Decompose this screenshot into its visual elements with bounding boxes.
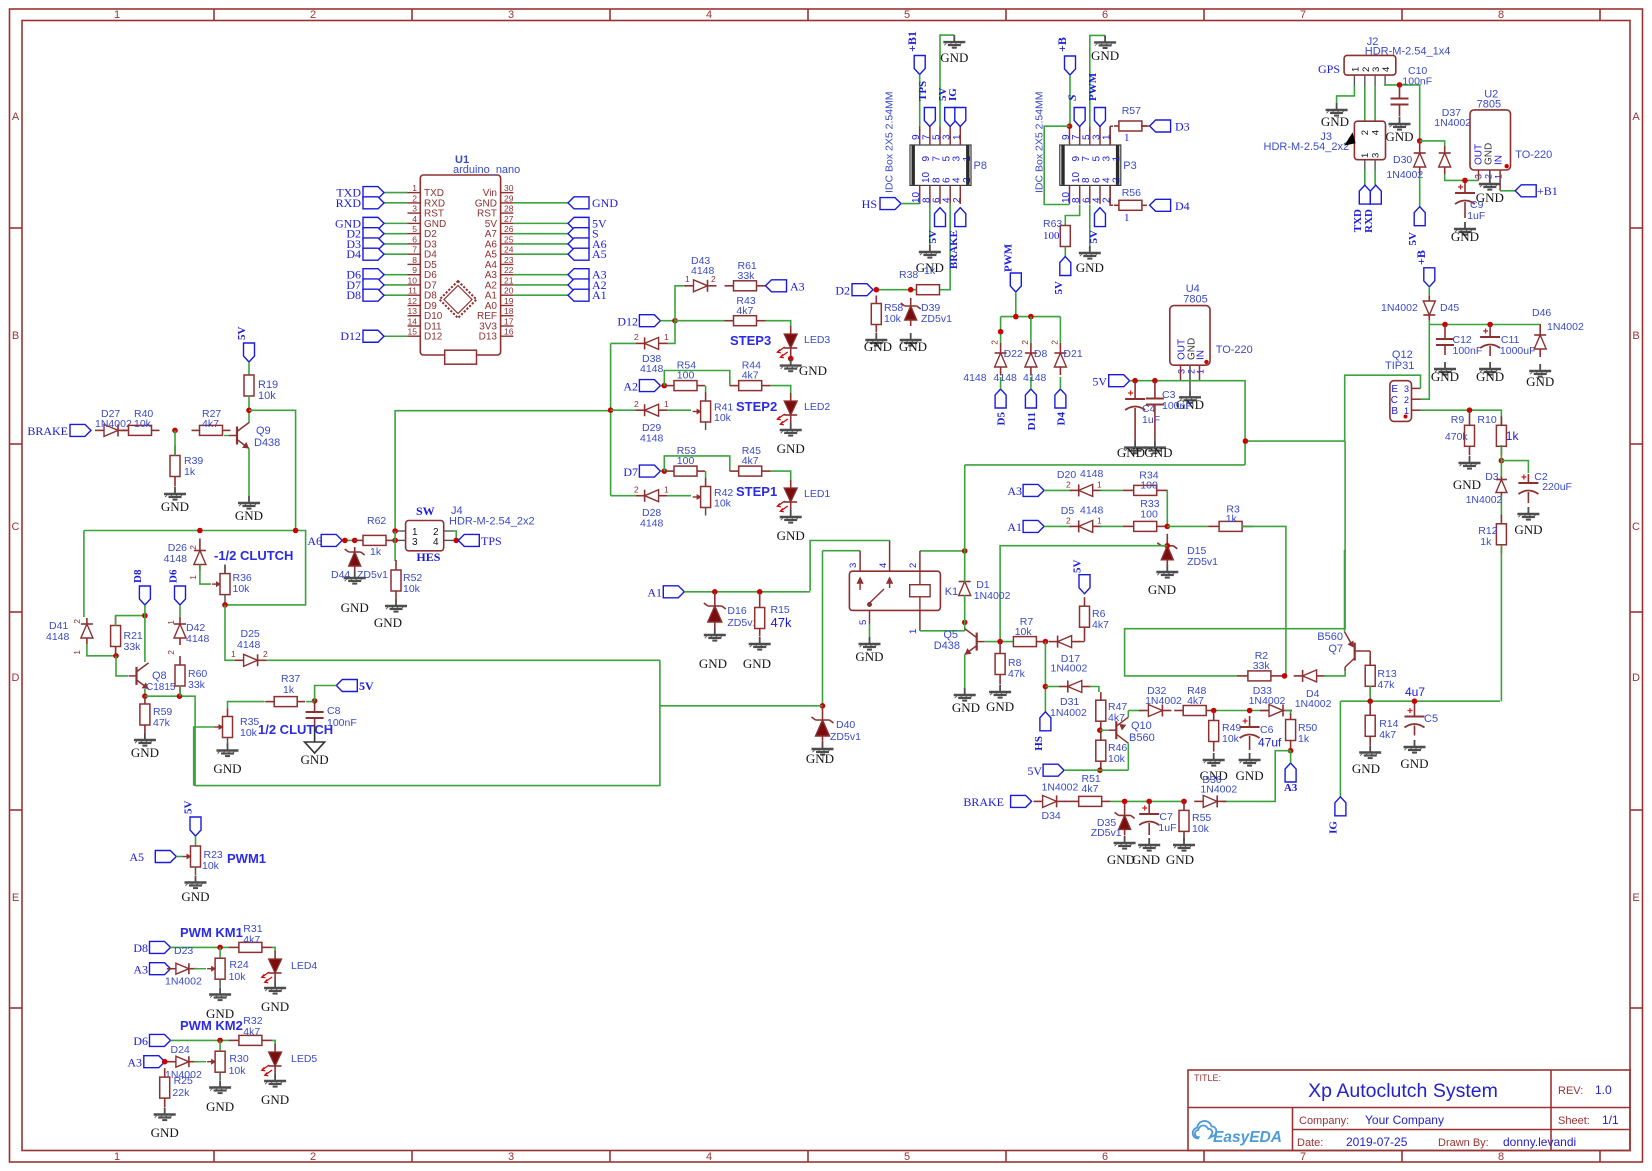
junction bbox=[1288, 748, 1294, 754]
junction bbox=[998, 329, 1004, 335]
junction bbox=[113, 653, 119, 659]
svg-text:Your Company: Your Company bbox=[1365, 1113, 1444, 1127]
svg-text:3: 3 bbox=[1177, 369, 1187, 374]
svg-text:D8: D8 bbox=[132, 569, 144, 583]
svg-text:B560: B560 bbox=[1129, 732, 1155, 744]
wire D8 to D11 bbox=[1030, 377, 1032, 389]
svg-text:4k7: 4k7 bbox=[1379, 729, 1396, 741]
svg-text:2: 2 bbox=[1112, 177, 1123, 183]
junction bbox=[312, 698, 318, 704]
svg-text:A: A bbox=[12, 111, 20, 123]
svg-text:PWM: PWM bbox=[1087, 72, 1099, 101]
svg-text:A1: A1 bbox=[647, 586, 662, 600]
junction bbox=[293, 528, 299, 534]
svg-text:4k7: 4k7 bbox=[1092, 619, 1109, 631]
svg-text:4148: 4148 bbox=[963, 372, 987, 384]
capacitor C9 1uF bbox=[1455, 183, 1475, 218]
svg-text:A3: A3 bbox=[127, 1056, 142, 1070]
junction bbox=[162, 1059, 168, 1065]
resistor R51 bbox=[1065, 796, 1111, 806]
svg-text:ZD5v1: ZD5v1 bbox=[830, 731, 861, 743]
svg-text:19: 19 bbox=[504, 296, 514, 306]
svg-text:7: 7 bbox=[412, 245, 417, 255]
wire bus to IG flag bbox=[1339, 701, 1341, 797]
svg-text:8: 8 bbox=[1498, 9, 1504, 21]
svg-text:D16: D16 bbox=[727, 605, 746, 617]
svg-text:TIP31: TIP31 bbox=[1385, 360, 1414, 372]
svg-text:1: 1 bbox=[412, 183, 417, 193]
net flag bbox=[1285, 763, 1296, 782]
svg-text:REV:: REV: bbox=[1558, 1085, 1583, 1097]
wire +B down bbox=[1069, 75, 1071, 127]
port flag D12 bbox=[363, 330, 384, 342]
zener diode D39 ZD5v1 bbox=[901, 298, 921, 326]
wire D2 to R38 bbox=[873, 289, 917, 291]
svg-text:A3: A3 bbox=[1284, 782, 1298, 794]
svg-text:EasyEDA: EasyEDA bbox=[1213, 1129, 1282, 1146]
svg-text:2: 2 bbox=[908, 563, 919, 568]
svg-text:A2: A2 bbox=[623, 380, 638, 394]
port flag D8 bbox=[363, 289, 384, 301]
resistor R46 bbox=[1096, 731, 1106, 770]
EasyEDA logo bbox=[1193, 1121, 1282, 1146]
svg-text:+B: +B bbox=[1055, 37, 1069, 52]
wire D6 flag to D42 bbox=[179, 605, 181, 617]
svg-text:C: C bbox=[1632, 521, 1640, 533]
svg-text:2019-07-25: 2019-07-25 bbox=[1346, 1135, 1408, 1149]
svg-text:3: 3 bbox=[508, 1151, 514, 1163]
wire R60 to emitter bus bbox=[179, 686, 181, 696]
port flag S bbox=[568, 228, 589, 240]
svg-text:D: D bbox=[12, 672, 20, 684]
svg-text:P8: P8 bbox=[974, 160, 987, 172]
svg-text:3: 3 bbox=[412, 537, 418, 548]
junction bbox=[453, 538, 459, 544]
net flag bbox=[880, 198, 901, 210]
svg-text:D4: D4 bbox=[1055, 412, 1067, 426]
svg-text:3: 3 bbox=[1404, 384, 1409, 394]
ground below C9 bbox=[1454, 222, 1476, 235]
U1 left pins bbox=[408, 193, 421, 337]
net flag bbox=[639, 465, 660, 477]
svg-text:1N4002: 1N4002 bbox=[1050, 707, 1087, 719]
wire D29 to R41 wiper bbox=[667, 409, 691, 411]
wire P3 pin5 to GND top bbox=[1090, 35, 1105, 126]
port flag TXD bbox=[363, 187, 384, 199]
wire R44 to LED2 bbox=[771, 386, 791, 394]
svg-text:33k: 33k bbox=[1253, 660, 1271, 672]
svg-text:D3: D3 bbox=[1175, 120, 1190, 134]
net flag bbox=[458, 534, 479, 546]
IC U1 arduino_nano bbox=[420, 175, 500, 355]
svg-text:100: 100 bbox=[1043, 230, 1060, 242]
svg-text:1N4002: 1N4002 bbox=[1249, 695, 1286, 707]
svg-text:33k: 33k bbox=[124, 641, 142, 653]
wire J2 pin1 to ground bbox=[1337, 86, 1355, 103]
svg-text:10k: 10k bbox=[1222, 733, 1240, 745]
resistor R37 bbox=[265, 697, 305, 707]
ground below P3 pin6 bbox=[1079, 246, 1101, 259]
svg-text:5V: 5V bbox=[1092, 375, 1107, 389]
svg-text:4k7: 4k7 bbox=[202, 418, 219, 430]
svg-text:1: 1 bbox=[1350, 67, 1361, 72]
svg-text:25: 25 bbox=[504, 234, 514, 244]
svg-text:TO-220: TO-220 bbox=[1515, 149, 1552, 161]
svg-text:D4: D4 bbox=[346, 247, 361, 261]
svg-text:GND: GND bbox=[743, 656, 771, 671]
wire D7 to U1 pin 10 bbox=[384, 284, 408, 286]
resistor R12 bbox=[1496, 515, 1506, 554]
svg-text:GND: GND bbox=[1476, 190, 1504, 205]
svg-text:4: 4 bbox=[706, 1151, 712, 1163]
resistor R25 bbox=[160, 1068, 170, 1107]
junction bbox=[1211, 708, 1217, 714]
svg-text:4148: 4148 bbox=[640, 518, 664, 530]
wire D28 to R42 wiper bbox=[667, 495, 691, 497]
svg-text:HDR-M-2.54_1x4: HDR-M-2.54_1x4 bbox=[1365, 46, 1451, 58]
svg-text:1: 1 bbox=[114, 9, 120, 21]
net flag bbox=[1414, 207, 1425, 226]
svg-text:Q9: Q9 bbox=[256, 425, 271, 437]
resistor R19 bbox=[244, 375, 254, 396]
svg-text:R56: R56 bbox=[1122, 187, 1141, 199]
svg-text:C: C bbox=[12, 521, 20, 533]
U1 bottom tab bbox=[445, 350, 477, 364]
svg-text:23: 23 bbox=[504, 255, 514, 265]
svg-text:1uF: 1uF bbox=[1142, 414, 1160, 426]
resistor R43 bbox=[725, 316, 766, 326]
wire D1 top to 5V bus bbox=[964, 465, 966, 582]
wire R63 to 5V bbox=[1064, 247, 1066, 257]
wire P3 pin6 to ground bbox=[1089, 205, 1091, 247]
svg-text:4148: 4148 bbox=[640, 363, 664, 375]
svg-text:R9: R9 bbox=[1451, 414, 1465, 426]
relay K1 internals bbox=[858, 571, 931, 610]
svg-text:Q10: Q10 bbox=[1131, 720, 1152, 732]
resistor R34 bbox=[1123, 485, 1168, 495]
svg-text:1: 1 bbox=[1404, 406, 1409, 416]
svg-text:5V: 5V bbox=[1407, 232, 1419, 246]
wire D23 to R24 wiper bbox=[194, 968, 206, 970]
svg-text:GND: GND bbox=[131, 745, 159, 760]
net flag bbox=[1094, 108, 1105, 127]
resistor R6 bbox=[1080, 597, 1090, 641]
svg-text:GND: GND bbox=[151, 1125, 179, 1140]
svg-text:D8: D8 bbox=[346, 288, 361, 302]
wire D33 to R50 bbox=[1285, 711, 1291, 716]
svg-text:HDR-M-2.54_2x2: HDR-M-2.54_2x2 bbox=[449, 516, 535, 528]
ground below R15 bbox=[749, 637, 771, 650]
junction bbox=[172, 428, 178, 434]
wire 5V bus down to R2 bbox=[1125, 441, 1346, 676]
svg-text:D6: D6 bbox=[168, 569, 180, 583]
wire D31 to R47 bbox=[1089, 687, 1099, 693]
svg-text:10k: 10k bbox=[240, 727, 258, 739]
svg-text:RXD: RXD bbox=[1363, 209, 1375, 233]
resistor R21 bbox=[111, 617, 121, 656]
title block bbox=[1188, 1070, 1630, 1151]
svg-text:4k7: 4k7 bbox=[243, 1026, 260, 1038]
svg-text:GND: GND bbox=[1132, 852, 1160, 867]
svg-text:1k: 1k bbox=[924, 265, 936, 277]
svg-text:D46: D46 bbox=[1532, 307, 1551, 319]
svg-text:1k: 1k bbox=[1298, 733, 1310, 745]
ground below R39 bbox=[164, 487, 186, 500]
wire J3 pin3 to RXD bbox=[1374, 170, 1376, 185]
svg-text:STEP1: STEP1 bbox=[736, 484, 777, 499]
net flag bbox=[144, 1056, 165, 1068]
svg-text:IDC Box 2X5 2.54MM: IDC Box 2X5 2.54MM bbox=[884, 91, 896, 193]
svg-text:22: 22 bbox=[504, 265, 514, 275]
wire D6 to R32 bbox=[171, 1039, 230, 1041]
junction bbox=[788, 356, 794, 362]
svg-text:1N4002: 1N4002 bbox=[95, 418, 132, 430]
svg-text:STEP3: STEP3 bbox=[730, 333, 771, 348]
junction bbox=[1282, 673, 1288, 679]
svg-text:GND: GND bbox=[1431, 369, 1459, 384]
svg-text:2: 2 bbox=[412, 193, 417, 203]
resistor R61 bbox=[725, 281, 766, 291]
svg-text:4148: 4148 bbox=[186, 633, 210, 645]
svg-text:TITLE:: TITLE: bbox=[1194, 1073, 1221, 1083]
svg-text:100nF: 100nF bbox=[1453, 345, 1483, 357]
wire Q8 emitter bbox=[144, 689, 146, 696]
svg-text:5: 5 bbox=[858, 620, 869, 625]
wire D7 flag bbox=[660, 470, 663, 472]
svg-text:47uf: 47uf bbox=[1258, 736, 1282, 750]
svg-text:D24: D24 bbox=[171, 1044, 190, 1056]
wire P3 pin8 to R63 bbox=[1065, 205, 1079, 226]
net flag bbox=[1074, 108, 1085, 127]
svg-text:GND: GND bbox=[206, 1099, 234, 1114]
svg-text:K1: K1 bbox=[945, 586, 958, 598]
svg-text:1/1: 1/1 bbox=[1602, 1113, 1619, 1127]
junction bbox=[392, 538, 398, 544]
wire to D22 bbox=[1000, 317, 1002, 343]
wire up to D43 bbox=[675, 286, 686, 321]
svg-text:GND: GND bbox=[1117, 445, 1145, 460]
junction bbox=[1181, 799, 1187, 805]
svg-text:4: 4 bbox=[1371, 130, 1382, 135]
wire R43 to LED3 bbox=[766, 321, 791, 328]
svg-text:26: 26 bbox=[504, 224, 514, 234]
svg-text:1: 1 bbox=[664, 399, 669, 409]
svg-text:1: 1 bbox=[1112, 156, 1123, 162]
svg-text:6: 6 bbox=[412, 234, 417, 244]
wire HS node to D31 bbox=[1045, 686, 1058, 688]
svg-text:4148: 4148 bbox=[237, 639, 261, 651]
wire 5V to R23 bbox=[195, 836, 197, 846]
svg-text:GND: GND bbox=[1400, 756, 1428, 771]
svg-text:HS: HS bbox=[862, 197, 877, 211]
wire D30 to 5V flag bbox=[1419, 175, 1421, 207]
svg-text:Drawn By:: Drawn By: bbox=[1438, 1137, 1489, 1149]
junction bbox=[1165, 543, 1171, 549]
svg-text:13: 13 bbox=[408, 306, 418, 316]
wire diode trio top bus bbox=[1001, 316, 1061, 318]
diode D33 1N4002 bbox=[1260, 705, 1292, 717]
svg-text:4k7: 4k7 bbox=[1187, 695, 1204, 707]
svg-text:STEP2: STEP2 bbox=[736, 399, 777, 414]
diode D29 4148 bbox=[636, 404, 668, 416]
svg-text:IN: IN bbox=[1196, 350, 1207, 360]
svg-text:TPS: TPS bbox=[481, 534, 502, 548]
connector J2 HDR-M-2.54_1x4 bbox=[1344, 55, 1396, 75]
wire R47 node to Q10 base bbox=[1100, 729, 1108, 731]
net flag bbox=[1025, 389, 1036, 408]
potentiometer R24 bbox=[207, 958, 225, 987]
svg-text:GND: GND bbox=[806, 751, 834, 766]
svg-text:7805: 7805 bbox=[1183, 294, 1207, 306]
svg-text:GND: GND bbox=[235, 508, 263, 523]
wire R24 top to D8 node bbox=[219, 947, 221, 957]
svg-text:R25: R25 bbox=[174, 1075, 193, 1087]
port flag RXD bbox=[363, 197, 384, 209]
svg-text:8: 8 bbox=[1498, 1151, 1504, 1163]
wire A3 to D20 bbox=[1044, 489, 1072, 491]
wire Q5 base to R7 bbox=[985, 641, 1015, 643]
junction bbox=[757, 589, 763, 595]
svg-text:4148: 4148 bbox=[164, 553, 188, 565]
junction bbox=[1487, 322, 1493, 328]
svg-text:1uF: 1uF bbox=[1158, 822, 1176, 834]
svg-text:B: B bbox=[1391, 406, 1398, 417]
resistor R32 bbox=[229, 1035, 272, 1045]
wire R12 down to bus bbox=[1500, 545, 1502, 701]
diode D26 4148 bbox=[194, 539, 206, 571]
svg-text:2: 2 bbox=[72, 619, 82, 624]
svg-text:1.0: 1.0 bbox=[1595, 1083, 1612, 1097]
svg-text:20: 20 bbox=[504, 286, 514, 296]
wire A6 to R62 bbox=[342, 539, 354, 541]
svg-text:1uF: 1uF bbox=[1467, 210, 1485, 222]
svg-text:GND: GND bbox=[855, 649, 883, 664]
ground at P8 top bbox=[943, 35, 965, 48]
wire D28 to bus bbox=[611, 495, 636, 497]
wire D21 to D4 bbox=[1059, 377, 1061, 389]
ground below R52 bbox=[385, 599, 407, 612]
resistor R45 bbox=[730, 466, 771, 476]
diode D23 1N4002 bbox=[167, 963, 198, 974]
wire R3 to R2 node bbox=[1242, 526, 1286, 676]
wire K1 pin5 to ground bbox=[869, 624, 871, 637]
wire Q9 collector to clutch bus bbox=[249, 410, 296, 530]
wire D22 to D5 bbox=[1000, 377, 1002, 389]
net flag bbox=[1043, 764, 1064, 776]
svg-text:GND: GND bbox=[1076, 260, 1104, 275]
svg-text:1N4002: 1N4002 bbox=[1386, 169, 1423, 181]
svg-text:D12: D12 bbox=[424, 332, 443, 343]
svg-text:7: 7 bbox=[1300, 1151, 1306, 1163]
ground below R14 bbox=[1359, 746, 1381, 759]
wire D24 to R30 wiper bbox=[194, 1061, 206, 1063]
potentiometer R23 bbox=[183, 846, 201, 875]
svg-text:1N4002: 1N4002 bbox=[1145, 695, 1182, 707]
svg-text:BRAKE: BRAKE bbox=[963, 795, 1004, 809]
svg-text:1: 1 bbox=[166, 620, 176, 625]
wire bus to D1 K1 node bbox=[965, 464, 1245, 466]
net flag bbox=[766, 280, 787, 292]
svg-text:PWM: PWM bbox=[1003, 243, 1015, 272]
svg-text:Xp Autoclutch System: Xp Autoclutch System bbox=[1308, 1080, 1498, 1102]
port flag A3 bbox=[568, 269, 589, 281]
wire HS branch vertical bbox=[1044, 642, 1046, 712]
svg-text:GND: GND bbox=[952, 700, 980, 715]
wire D7 to R45 bbox=[664, 456, 730, 471]
net flag bbox=[1010, 273, 1021, 292]
capacitor C7 1uF bbox=[1139, 802, 1159, 835]
wire D8 to U1 pin 11 bbox=[384, 294, 408, 296]
svg-text:A5: A5 bbox=[129, 850, 144, 864]
ground below C11 bbox=[1479, 362, 1501, 375]
svg-text:D21: D21 bbox=[1063, 348, 1082, 360]
svg-text:C: C bbox=[1391, 395, 1398, 406]
ground below R9 bbox=[1459, 456, 1481, 469]
svg-text:1N4002: 1N4002 bbox=[1295, 698, 1332, 710]
wire bus down to D41 bbox=[83, 531, 85, 618]
diode D34 1N4002 bbox=[1034, 795, 1066, 807]
svg-text:1N4002: 1N4002 bbox=[1381, 302, 1418, 314]
svg-text:29: 29 bbox=[504, 193, 514, 203]
wire R13 to bus bbox=[1369, 686, 1371, 701]
svg-text:10k: 10k bbox=[229, 971, 247, 983]
svg-text:E: E bbox=[1391, 384, 1398, 395]
svg-text:LED2: LED2 bbox=[804, 401, 830, 413]
svg-text:1k: 1k bbox=[1480, 536, 1492, 548]
svg-text:5: 5 bbox=[904, 1151, 910, 1163]
wire 5V to R19 bbox=[248, 362, 250, 375]
wire J2 pin3 to J3 bbox=[1374, 86, 1376, 121]
net flag bbox=[1040, 712, 1051, 731]
wire D25 output row bbox=[267, 659, 660, 661]
svg-text:B: B bbox=[1632, 330, 1639, 342]
net flag bbox=[1150, 199, 1171, 211]
IC P8 IDC Box 2X5 bbox=[910, 145, 971, 185]
wire R27 to Q9 base bbox=[224, 435, 229, 437]
resistor R40 bbox=[121, 425, 160, 435]
wire 5V to Q10 collector bbox=[1064, 769, 1128, 771]
diode D43 4148 bbox=[685, 280, 717, 292]
diode D42 4148 bbox=[174, 617, 186, 645]
svg-text:10k: 10k bbox=[714, 498, 732, 510]
ground below R25 bbox=[154, 1108, 176, 1121]
potentiometer R41 bbox=[693, 392, 711, 430]
wire TXD to U1 pin 1 bbox=[384, 192, 408, 194]
U1 chip glyph bbox=[440, 281, 477, 318]
svg-text:RXD: RXD bbox=[336, 196, 362, 210]
resistor R53 bbox=[664, 466, 705, 476]
svg-text:GND: GND bbox=[181, 889, 209, 904]
ground below Q9 bbox=[238, 496, 260, 509]
resistor R38 bbox=[917, 285, 940, 295]
resistor R14 bbox=[1365, 701, 1375, 745]
diode D24 1N4002 bbox=[167, 1056, 198, 1067]
svg-text:24: 24 bbox=[504, 245, 514, 255]
ground below R55 bbox=[1173, 838, 1195, 851]
svg-text:4k7: 4k7 bbox=[243, 934, 260, 946]
svg-text:4: 4 bbox=[878, 563, 889, 568]
svg-text:LED4: LED4 bbox=[291, 960, 317, 972]
ground below C3 bbox=[1144, 441, 1166, 454]
wire D5 to R33 bbox=[1100, 525, 1123, 527]
U2 GND pin ground bbox=[1489, 170, 1491, 177]
resistor R50 bbox=[1286, 714, 1296, 750]
wire A2 to R44 bbox=[664, 371, 730, 386]
resistor R31 bbox=[229, 942, 272, 952]
wire R42 top to R53 bbox=[705, 471, 707, 478]
svg-text:D23: D23 bbox=[174, 945, 193, 957]
svg-text:3: 3 bbox=[412, 204, 417, 214]
